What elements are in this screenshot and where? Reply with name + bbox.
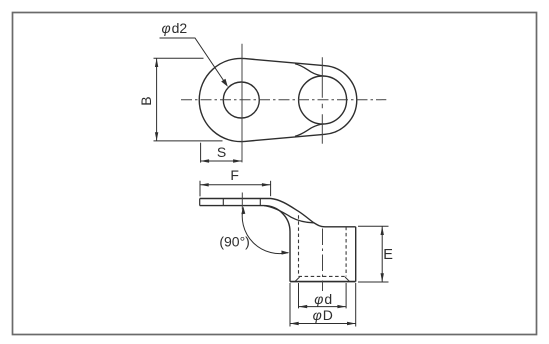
dimension E: bottom extension line (358, 281, 389, 283)
dimension B: bottom extension line (154, 140, 223, 142)
barrel centerline (side view) (322, 229, 324, 292)
dimension B: top extension line (154, 57, 204, 59)
barrel inner wall left (hidden) (298, 215, 300, 276)
barrel right wall (355, 227, 357, 282)
leader line for phi-d2 (160, 38, 227, 84)
dimension phi-d: dimension line with arrows (299, 306, 347, 308)
90 degree bend arc with arrows (242, 208, 288, 254)
inner corner chamfer left (295, 277, 299, 281)
dimension phi-d: right extension line (345, 283, 347, 308)
dimension F: right extension line (270, 181, 272, 196)
dimension phi-D: right extension line (355, 283, 357, 327)
dimension S: dimension line with arrows (200, 160, 241, 162)
dimension E: dimension line with arrows (381, 226, 383, 282)
hole circle phi-d2 (top view) (223, 82, 259, 118)
svg-text:φd: φd (314, 291, 332, 307)
dimension B: dimension line with arrows (156, 58, 158, 141)
barrel inner bottom (hidden) (299, 275, 347, 277)
outer bend curve to barrel left wall (264, 206, 290, 282)
barrel bottom edge (290, 281, 356, 283)
tongue top surface (200, 199, 356, 227)
hole edge tick right (side view) (259, 199, 261, 206)
svg-text:E: E (383, 247, 393, 263)
dimension phi-d: left extension line (298, 283, 300, 308)
bottom crimp wing curve (295, 124, 324, 136)
dimension E: top extension line (358, 225, 389, 227)
barrel bore circle (top view) (299, 76, 347, 124)
svg-text:(90°): (90°) (219, 233, 250, 249)
outline of terminal palm (top view) (199, 58, 357, 141)
vertical centerline through hole (top view) (241, 44, 243, 163)
svg-text:B: B (138, 96, 154, 105)
top crimp wing curve (295, 64, 324, 76)
svg-text:F: F (230, 167, 239, 183)
barrel inner wall right (hidden) (345, 227, 347, 277)
tongue left end cap (199, 199, 201, 206)
inner bend silhouette curve (264, 206, 314, 223)
inner corner chamfer right (345, 277, 349, 281)
hole edge tick left (side view) (222, 199, 224, 206)
svg-text:φD: φD (313, 307, 333, 323)
vertical centerline through barrel bore (top view) (321, 57, 323, 144)
dimension F: left extension line (199, 181, 201, 197)
hole centerline (side view) (241, 193, 243, 210)
dimension F: dimension line with arrows (200, 184, 271, 186)
dimension phi-D: dimension line with arrows (290, 323, 356, 325)
svg-text:φd2: φd2 (162, 20, 188, 36)
horizontal centerline (top view) (181, 99, 386, 101)
tongue bottom surface (200, 205, 264, 207)
dimension S: left extension line (200, 143, 202, 163)
svg-text:S: S (217, 144, 226, 160)
leader arrowhead at hole edge (221, 79, 228, 87)
dimension phi-D: left extension line (289, 283, 291, 327)
